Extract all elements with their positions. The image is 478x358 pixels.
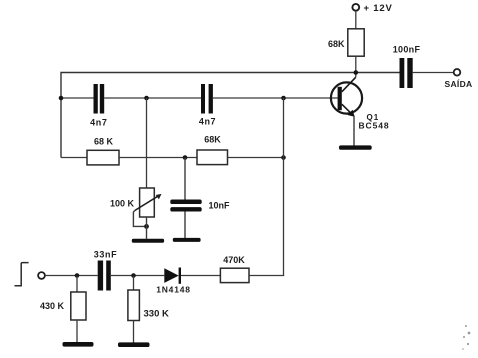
transistor Q1 BC548 xyxy=(331,77,390,130)
svg-text:100nF: 100nF xyxy=(393,45,421,55)
wire C2 to base node xyxy=(213,97,338,99)
wire 10nF bottom lead xyxy=(184,212,186,239)
wire capacitor row (left) xyxy=(61,97,94,99)
resistor R1 68K xyxy=(87,137,119,165)
resistor R5 470K xyxy=(220,255,249,283)
output terminal SAIDA xyxy=(445,69,473,89)
ground (10nF) xyxy=(173,238,201,242)
wire node D to 10nF xyxy=(184,158,186,201)
wire diode to 470K xyxy=(181,275,220,277)
ground (emitter) xyxy=(339,145,372,149)
node H (330K junction) xyxy=(131,273,136,278)
wire node B vertical to potentiometer xyxy=(146,98,148,188)
wire R1 to R2 xyxy=(119,157,197,159)
wire 430K top lead xyxy=(76,276,78,293)
svg-text:4n7: 4n7 xyxy=(90,118,107,128)
ground (430K) xyxy=(63,342,94,347)
wire 430K bottom lead xyxy=(76,320,78,343)
wire 470K to right vertical xyxy=(249,275,284,277)
input terminal xyxy=(38,272,45,279)
wire R2 to right vertical xyxy=(228,157,284,159)
node D (10nF junction) xyxy=(183,155,188,160)
node A (left vertical / cap row junction) xyxy=(59,96,64,101)
wire top feedback rail xyxy=(61,73,400,158)
svg-text:68 K: 68 K xyxy=(94,137,114,147)
svg-text:SAÍDA: SAÍDA xyxy=(445,79,473,89)
capacitor C4 33nF xyxy=(94,250,117,291)
wire supply to R6 xyxy=(355,11,357,29)
wire right vertical (base node to 470K) xyxy=(283,98,285,276)
ground (330K) xyxy=(118,342,150,347)
resistor R6 68K xyxy=(328,29,364,56)
wire input to node G xyxy=(45,275,98,277)
svg-text:68K: 68K xyxy=(204,135,221,145)
wire C1 to C2 xyxy=(104,97,201,99)
svg-text:+ 12V: + 12V xyxy=(364,3,393,14)
scan specks (page noise) xyxy=(462,325,470,350)
resistor R2 68K xyxy=(197,135,228,165)
capacitor C3 10nF xyxy=(170,200,230,212)
diode D1 1N4148 xyxy=(156,268,191,295)
wire potentiometer wiper tie xyxy=(133,211,146,227)
node F (wiper junction) xyxy=(144,224,149,229)
node G (430K junction) xyxy=(75,273,80,278)
capacitor C5 100nF xyxy=(393,45,421,89)
input step waveform symbol xyxy=(15,263,29,286)
node C (base node junction) xyxy=(281,96,286,101)
node B (junction C1/C2) xyxy=(144,96,149,101)
wire left vertical to resistor row xyxy=(61,157,87,159)
wire 330K bottom lead xyxy=(133,321,135,343)
supply terminal +12V xyxy=(352,3,392,14)
svg-text:10nF: 10nF xyxy=(209,201,231,211)
svg-text:4n7: 4n7 xyxy=(199,117,216,127)
wire 330K top lead xyxy=(133,276,135,291)
wire R6 to collector node xyxy=(355,56,357,77)
resistor R4 330K xyxy=(128,290,169,321)
capacitor C1 4n7 xyxy=(90,84,107,128)
node I (collector junction) xyxy=(354,70,359,75)
ground (potentiometer) xyxy=(132,239,164,243)
capacitor C2 4n7 xyxy=(199,84,216,127)
wire emitter lead xyxy=(353,116,355,147)
svg-text:BC548: BC548 xyxy=(359,121,390,131)
svg-text:100 K: 100 K xyxy=(110,199,135,209)
wire 33nF to node H xyxy=(111,275,165,277)
svg-text:1N4148: 1N4148 xyxy=(156,285,191,295)
node E (right vertical / resistor row junction) xyxy=(281,155,286,160)
wire 100nF to output xyxy=(413,72,454,74)
wire pot bottom lead xyxy=(146,217,148,239)
svg-text:470K: 470K xyxy=(223,255,245,265)
potentiometer P1 100K xyxy=(110,188,162,217)
svg-text:330 K: 330 K xyxy=(144,309,169,320)
resistor R3 430K xyxy=(40,292,86,320)
svg-text:68K: 68K xyxy=(328,39,345,49)
svg-text:33nF: 33nF xyxy=(94,250,117,260)
svg-text:430 K: 430 K xyxy=(40,301,65,311)
